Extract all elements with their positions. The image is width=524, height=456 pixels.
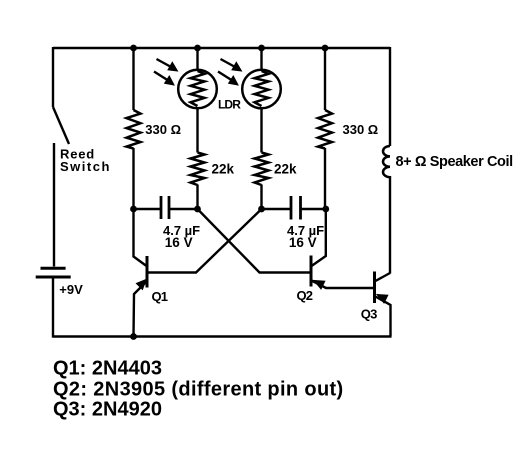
photoresistor LDR2 circle xyxy=(242,70,281,109)
wire branch D upper xyxy=(324,48,326,110)
arrow LDR1 b xyxy=(154,72,169,82)
svg-text:LDR: LDR xyxy=(218,98,241,112)
transistor Q1 emitter xyxy=(134,281,148,337)
wire cap row xyxy=(169,208,198,210)
transistor Q2 emitter arrow xyxy=(314,281,325,290)
resistor R4 330 ohm xyxy=(318,110,332,149)
svg-text:Q2: 2N3905 (different pin out): Q2: 2N3905 (different pin out) xyxy=(53,379,344,401)
transistor Q2 base bar xyxy=(310,256,313,287)
transistor Q1 collector to node C xyxy=(148,209,262,273)
transistor Q3 collector xyxy=(375,273,391,282)
wire branch C mid xyxy=(260,108,262,153)
wire top rail xyxy=(53,47,390,49)
svg-text:Switch: Switch xyxy=(60,159,111,174)
node dot mid A xyxy=(130,206,137,213)
wire branch C upper xyxy=(260,48,262,70)
photoresistor LDR2 zigzag xyxy=(255,71,269,106)
wire right rail lower xyxy=(389,176,391,274)
wire bottom rail xyxy=(53,335,392,337)
transistor Q3 emitter xyxy=(375,296,391,337)
wire left rail upper xyxy=(52,47,54,107)
wire branch B upper xyxy=(196,48,198,70)
svg-text:+9V: +9V xyxy=(59,282,83,297)
capacitor C1 4.7uF xyxy=(160,196,163,219)
wire Q2 base lead xyxy=(312,209,326,266)
wire right rail upper xyxy=(389,47,391,146)
wire left rail lower xyxy=(52,279,54,338)
wire branch A upper xyxy=(132,48,134,110)
wire cap2 row left xyxy=(262,208,292,210)
wire Q2 collector to node B xyxy=(198,209,312,273)
capacitor C2 4.7uF xyxy=(290,196,293,220)
transistor Q3 base bar xyxy=(373,272,376,304)
node dot top D xyxy=(322,45,329,52)
node dot top C xyxy=(258,45,265,52)
node dot mid D xyxy=(322,206,329,213)
svg-text:Q2: Q2 xyxy=(297,288,313,303)
wire branch C lower xyxy=(260,185,262,210)
node dot bottom A xyxy=(130,333,137,340)
svg-text:330 Ω: 330 Ω xyxy=(145,122,181,137)
arrow LDR2 b xyxy=(218,72,233,82)
wire cap2 row xyxy=(301,208,326,210)
wire left rail mid xyxy=(53,143,55,267)
wire Q1 base lead xyxy=(134,209,147,266)
transistor Q1 emitter arrow xyxy=(136,280,146,290)
wire branch A lower xyxy=(132,148,134,209)
svg-text:22k: 22k xyxy=(274,162,297,177)
transistor Q2 emitter xyxy=(312,281,374,289)
svg-text:330 Ω: 330 Ω xyxy=(343,122,379,137)
node dot top A xyxy=(130,45,137,52)
resistor R3 22k xyxy=(255,153,269,186)
transistor Q3 emitter arrow xyxy=(377,295,388,304)
svg-text:Q1: 2N4403: Q1: 2N4403 xyxy=(53,358,162,380)
svg-text:Q1: Q1 xyxy=(152,289,168,304)
arrow LDR1 a xyxy=(157,59,173,68)
svg-text:8+ Ω Speaker Coil: 8+ Ω Speaker Coil xyxy=(396,154,513,170)
arrow LDR2 a xyxy=(221,59,237,68)
svg-text:Q3: Q3 xyxy=(361,306,377,321)
photoresistor LDR1 circle xyxy=(178,70,217,109)
wire branch B lower xyxy=(196,185,198,210)
inductor L1 speaker coil xyxy=(383,146,390,177)
battery B1 +9V xyxy=(41,267,66,270)
svg-text:Q3: 2N4920: Q3: 2N4920 xyxy=(53,399,162,421)
resistor R1 330 ohm xyxy=(127,110,141,149)
svg-text:22k: 22k xyxy=(212,162,235,177)
photoresistor LDR1 zigzag xyxy=(191,71,205,106)
reed switch SW1 xyxy=(53,107,69,144)
wire branch D lower xyxy=(324,148,326,209)
transistor Q1 base bar xyxy=(146,256,149,288)
resistor R2 22k xyxy=(191,153,205,186)
node dot mid B xyxy=(194,206,201,213)
wire branch B mid xyxy=(196,108,198,153)
svg-text:16 V: 16 V xyxy=(165,235,193,250)
node dot top B xyxy=(194,45,201,52)
svg-text:16 V: 16 V xyxy=(289,235,317,250)
node dot mid C xyxy=(258,206,265,213)
wire cap row left xyxy=(134,208,162,210)
